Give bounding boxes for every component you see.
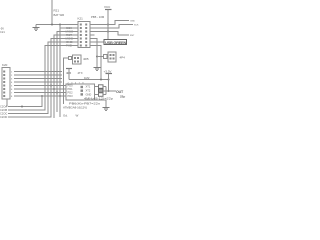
crystal Q1 xyxy=(99,89,104,93)
wire ground rail top xyxy=(36,24,78,26)
wire +3.3V stem xyxy=(108,74,110,92)
wire right w2 xyxy=(95,25,134,29)
svg-text:C2OD: C2OD xyxy=(0,115,7,119)
power tap bar xyxy=(66,68,72,70)
svg-text:C2OA: C2OA xyxy=(0,105,7,109)
wire xtal out xyxy=(103,90,116,92)
svg-text:OUT: OUT xyxy=(116,90,124,94)
wire K20 bottom drop xyxy=(6,99,8,107)
wire fan row7 xyxy=(8,46,74,111)
ground GND1 xyxy=(33,28,40,31)
node junction VCC row3 xyxy=(107,31,109,33)
svg-text:C21: C21 xyxy=(0,30,5,34)
wire to opto right xyxy=(97,56,104,58)
svg-text:4R5: 4R5 xyxy=(83,57,89,61)
svg-text:PD3: PD3 xyxy=(68,94,74,98)
svg-text:USB GREEN: USB GREEN xyxy=(105,40,126,45)
node junction J1 xyxy=(51,24,53,26)
svg-text:Gd.: Gd. xyxy=(63,114,68,118)
connector K20 body xyxy=(2,68,10,100)
wire xtal stub2 xyxy=(95,94,99,96)
node junction feed1 xyxy=(100,79,102,81)
wire right w8 down xyxy=(95,46,102,80)
node junction xtal xyxy=(108,90,110,92)
wire bus row8 xyxy=(14,95,66,97)
svg-text:1: 1 xyxy=(11,72,13,74)
wire ground stem xyxy=(35,25,37,28)
capacitor C2 xyxy=(99,93,104,97)
node junction w4 xyxy=(96,56,98,58)
wire fan row6 xyxy=(8,42,74,114)
wire bus row4 xyxy=(14,81,62,83)
net label USB GREEN xyxy=(104,40,127,45)
wire fan row3 xyxy=(57,32,74,113)
opto U3 body xyxy=(73,55,82,64)
svg-text:XT2: XT2 xyxy=(86,89,91,93)
svg-text:2: 2 xyxy=(11,75,13,77)
svg-text:4P4: 4P4 xyxy=(120,56,126,60)
svg-text:PB5 - 10M: PB5 - 10M xyxy=(91,15,105,19)
resistor small box left of opto U3 xyxy=(69,57,72,60)
svg-text:1M2: 1M2 xyxy=(84,76,90,80)
wire bottom row1 riser xyxy=(8,96,42,107)
svg-text:8: 8 xyxy=(11,96,13,98)
svg-text:7: 7 xyxy=(11,93,13,95)
svg-text:RST: RST xyxy=(130,35,135,37)
wire vcc feed horizontal xyxy=(69,79,109,81)
wire power tap stem xyxy=(68,69,70,80)
node junction feed2 xyxy=(108,79,110,81)
wire net BAT to rail xyxy=(51,0,53,25)
wire fan row4 xyxy=(54,35,74,118)
svg-text:XT1: XT1 xyxy=(86,85,91,89)
svg-text:W: W xyxy=(76,114,79,118)
svg-text:ATMEGA8-16(12V): ATMEGA8-16(12V) xyxy=(63,106,87,110)
opto U4 body xyxy=(108,52,116,62)
ground GND3 xyxy=(103,108,110,111)
svg-text:VCC: VCC xyxy=(104,5,111,9)
wire xtal join xyxy=(103,87,116,95)
net labels K21 left pins xyxy=(66,26,74,48)
wire right w6 to label xyxy=(95,41,105,43)
svg-text:C2OC: C2OC xyxy=(0,112,7,116)
svg-text:K20: K20 xyxy=(2,63,8,67)
svg-text:PD1: PD1 xyxy=(68,87,74,91)
wire bus row5 xyxy=(14,85,66,87)
wire VCC stem xyxy=(107,10,109,41)
wire bus row3 xyxy=(14,78,62,80)
connector K20 pads xyxy=(3,71,5,98)
wire fan row5 xyxy=(8,39,74,118)
IC U2 pin names left xyxy=(68,84,74,99)
ground GND2 xyxy=(94,68,101,71)
wire IC bottom to ground xyxy=(95,100,107,107)
wire right w3 xyxy=(95,32,130,36)
svg-text:22p: 22p xyxy=(120,95,125,99)
resistor R5 small box xyxy=(104,55,108,59)
net labels bottom left xyxy=(0,105,7,120)
capacitor C1 xyxy=(99,85,104,89)
svg-text:BAT WR: BAT WR xyxy=(54,13,65,17)
wire fan row2 xyxy=(8,28,74,118)
svg-text:GND: GND xyxy=(130,21,135,23)
wire bus row6 xyxy=(14,88,66,90)
node junction bottom row xyxy=(21,106,23,108)
connector K21 left pin stubs xyxy=(74,28,78,46)
svg-text:C2OB: C2OB xyxy=(0,108,7,112)
svg-text:5: 5 xyxy=(11,86,13,88)
node junction bus dots xyxy=(41,95,43,97)
wire bus row1 xyxy=(7,72,66,107)
node junction VCC row1 xyxy=(107,24,109,26)
svg-text:R21: R21 xyxy=(54,9,60,13)
svg-text:3: 3 xyxy=(11,79,13,81)
connector K20 pin numbers xyxy=(11,72,13,99)
svg-text:-5V: -5V xyxy=(0,27,4,31)
wire bus row2 xyxy=(14,74,62,76)
svg-text:4TX: 4TX xyxy=(78,71,83,75)
connector K21 body xyxy=(78,22,90,48)
svg-text:SCK: SCK xyxy=(134,25,139,27)
svg-text:K21: K21 xyxy=(78,17,84,21)
IC U2 body xyxy=(66,84,95,100)
svg-text:6: 6 xyxy=(11,89,13,91)
svg-text:4R6: 4R6 xyxy=(66,71,72,75)
svg-text:4: 4 xyxy=(11,82,13,84)
net label tags wire ends xyxy=(130,21,139,38)
connector K21 pin pads xyxy=(80,24,87,47)
wire right w4 down xyxy=(95,39,98,68)
svg-text:PD2: PD2 xyxy=(68,91,74,95)
node junction J2 xyxy=(59,24,61,26)
connector K21 right pin stubs xyxy=(90,25,95,46)
wire bus row7 xyxy=(14,92,66,94)
IC U2 inner pads xyxy=(81,86,84,96)
IC U2 pin names right xyxy=(86,85,92,97)
wire xtal stub1 xyxy=(95,87,99,95)
wire right w1 xyxy=(95,21,134,80)
svg-text:23678: 23678 xyxy=(68,82,87,84)
wire U3 left xyxy=(64,58,69,104)
